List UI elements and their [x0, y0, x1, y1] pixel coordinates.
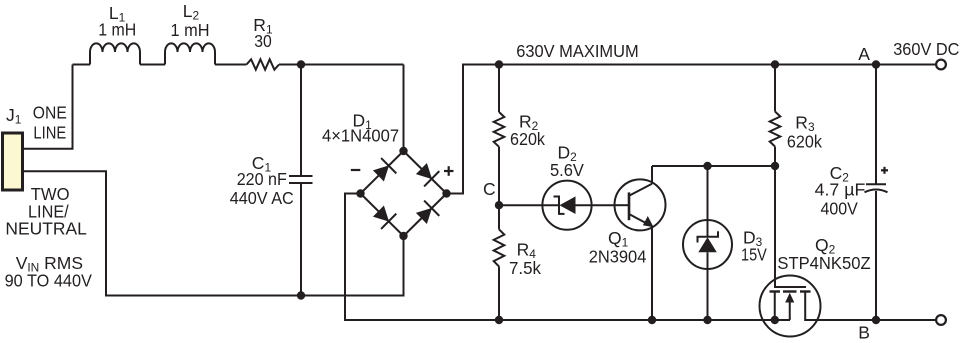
node: bridge bottom — [399, 232, 407, 240]
node: C2 top junction — [872, 60, 880, 68]
svg-text:C: C — [483, 179, 496, 199]
node: Q1 emitter bottom junction — [648, 316, 656, 324]
node: D3 bottom junction — [703, 316, 711, 324]
node: R3 top junction — [771, 60, 779, 68]
wire: top rail down to bridge top — [403, 65, 405, 152]
node: R4 bottom junction — [495, 316, 503, 324]
terminal A — [936, 60, 946, 70]
svg-text:4.7 µF: 4.7 µF — [815, 179, 866, 199]
wire: J1 pin1 to top rail — [23, 65, 73, 149]
wire: Q1 collector to gate node — [652, 165, 775, 167]
svg-text:2N3904: 2N3904 — [589, 247, 647, 267]
label bridge minus sign — [351, 169, 361, 171]
node: C1 bottom junction — [297, 291, 305, 299]
svg-text:J1: J1 — [6, 105, 22, 127]
capacitor C2 — [875, 65, 877, 185]
wire: between L1 and L2 — [140, 64, 165, 66]
node: Q2 source junction — [771, 316, 779, 324]
svg-text:30: 30 — [254, 31, 272, 51]
mosfet Q2 — [760, 276, 821, 337]
label bridge plus sign — [444, 170, 454, 172]
svg-text:NEUTRAL: NEUTRAL — [5, 219, 87, 239]
node: bridge top — [399, 147, 407, 155]
svg-text:620k: 620k — [787, 132, 822, 152]
node: bridge right — [442, 189, 450, 197]
resistor R3 — [774, 65, 776, 112]
wire: bottom rail drain to B — [805, 319, 941, 321]
inductor L2 — [165, 43, 215, 64]
svg-text:LINE: LINE — [33, 122, 66, 142]
svg-text:B: B — [858, 322, 870, 342]
svg-text:STP4NK50Z: STP4NK50Z — [777, 253, 870, 273]
capacitor C1 plates — [289, 175, 313, 177]
bridge rectifier D1 diode left-top — [361, 151, 404, 194]
capacitor C1 lead lower — [300, 183, 302, 296]
zener diode D2 — [542, 181, 591, 230]
svg-text:ONE: ONE — [33, 103, 67, 123]
svg-text:630V MAXIMUM: 630V MAXIMUM — [516, 41, 639, 61]
svg-text:1 mH: 1 mH — [98, 20, 136, 40]
label C2 plus sign — [881, 169, 888, 171]
node C — [495, 201, 503, 209]
node: R2 top junction — [495, 60, 503, 68]
node: junction top of C1 — [297, 60, 305, 68]
svg-text:620k: 620k — [510, 129, 545, 149]
svg-text:440V AC: 440V AC — [230, 188, 294, 208]
svg-text:90 TO 440V: 90 TO 440V — [5, 271, 93, 291]
node: C2 bottom junction — [872, 316, 880, 324]
svg-text:A: A — [858, 44, 870, 64]
bridge rectifier D1 diode bottom-right — [404, 194, 447, 237]
svg-text:220 nF: 220 nF — [237, 169, 287, 189]
transistor Q1 — [615, 179, 666, 230]
svg-text:4×1N4007: 4×1N4007 — [322, 126, 399, 146]
svg-text:7.5k: 7.5k — [509, 258, 541, 278]
inductor L1 — [90, 43, 140, 64]
resistor R1 — [247, 59, 280, 69]
wire: bridge plus to top rail — [447, 65, 942, 194]
svg-text:1 mH: 1 mH — [171, 20, 210, 40]
connector J1 — [3, 133, 23, 190]
bridge rectifier D1 diode top-right — [404, 151, 447, 194]
node: R3 bottom junction — [771, 162, 779, 170]
resistor R4 — [498, 205, 500, 229]
wire: L2 to R1 — [215, 64, 247, 66]
node: bridge left — [356, 189, 364, 197]
wire: D2 to Q1 base — [592, 204, 615, 206]
wire: bridge minus to bottom rail — [345, 194, 790, 321]
wire: R1 to bridge-top corner — [279, 64, 404, 66]
resistor R2 — [498, 65, 500, 113]
svg-text:15V: 15V — [741, 245, 767, 265]
svg-text:400V: 400V — [821, 199, 859, 219]
wire: node C to D2 — [499, 204, 542, 206]
wire: top rail left segment — [73, 64, 91, 66]
capacitor C1 lead upper — [300, 65, 302, 177]
bridge rectifier D1 diode left-bottom — [361, 194, 404, 237]
terminal B — [936, 315, 946, 325]
svg-text:5.6V: 5.6V — [550, 160, 584, 180]
zener diode D3 — [707, 166, 709, 220]
wire: J1 pin2 to bridge bottom — [23, 171, 404, 295]
svg-text:360V DC: 360V DC — [893, 39, 959, 59]
node: D3 top junction — [703, 162, 711, 170]
